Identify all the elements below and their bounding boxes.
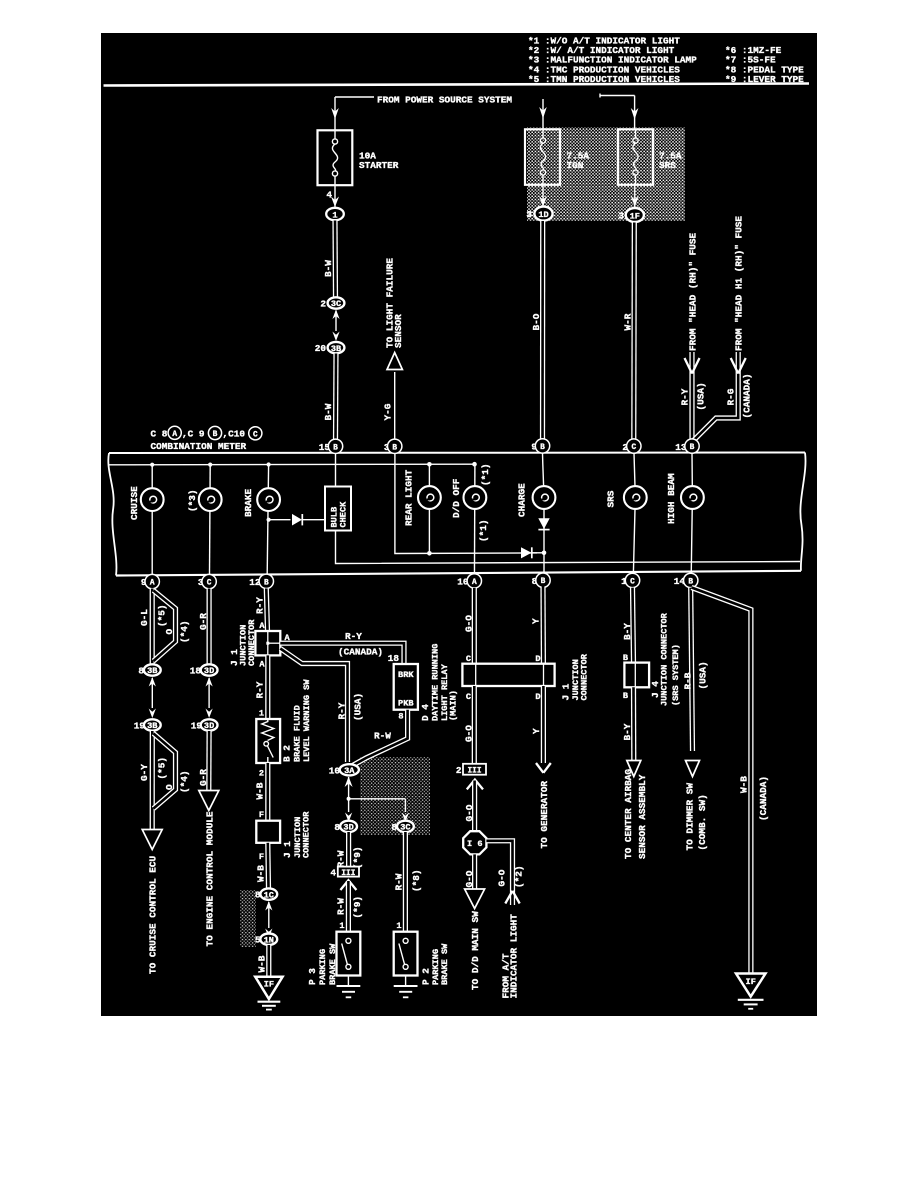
svg-text:(SRS SYSTEM): (SRS SYSTEM) [671,644,681,706]
connector 18(3D) [190,664,218,676]
svg-text:G-O: G-O [497,869,508,886]
svg-text:R-Y: R-Y [255,681,266,698]
wire G-O pin 10A to J1 connector [472,588,477,664]
svg-text:PKB: PKB [398,698,413,708]
meter internal supply bus [109,463,475,466]
svg-text:(*5): (*5) [156,604,167,627]
meter pin 3B [384,439,402,453]
wire R-G (CANADA) from HEAD H1 RH fuse to pin 13B [694,352,739,441]
diode below charge bulb [538,518,549,529]
svg-text:TO GENERATOR: TO GENERATOR [539,781,550,849]
label P 2 PARKING BRAKE SW [420,943,450,985]
svg-text:R-Y: R-Y [255,597,266,614]
wire Y J1 to generator [541,686,546,763]
connector I 6 octagon [463,831,486,854]
wire IGN fuse to connector 1D [539,185,547,208]
svg-text:2: 2 [259,769,264,779]
svg-text:INDICATOR LIGHT: INDICATOR LIGHT [509,914,520,999]
brake to bulb-check branch wire [267,518,326,522]
svg-text:G-O: G-O [464,870,475,887]
svg-text:G-L: G-L [139,609,150,626]
svg-text:G-O: G-O [464,615,475,632]
wire B-W connector 1 to 2(3C) [332,221,338,298]
svg-text:(MAIN): (MAIN) [449,690,459,721]
svg-text:D: D [535,654,540,664]
svg-text:B: B [540,444,545,452]
svg-text:D: D [535,692,540,702]
arrow to center airbag sensor assembly [627,761,641,777]
mating arrows 1C/1N [265,901,272,938]
bulb CRUISE [141,488,164,511]
cruise lamp column wire [151,465,153,589]
diode at charge column [521,547,544,558]
label J 1 JUNCTION CONNECTOR (first) [229,619,257,666]
svg-text:Y-G: Y-G [382,403,393,420]
label B 2 BRAKE FLUID LEVEL WARNING SW [282,679,313,762]
svg-text:W-B: W-B [255,782,266,799]
arrow into 8(3C) [402,813,409,823]
svg-text:B-Y: B-Y [622,623,633,640]
arrow to dimmer switch [686,761,700,777]
halftone patch near connector 3A [360,757,430,835]
junction connector J1 box (second) [256,821,280,843]
svg-text:O: O [164,629,175,635]
connector 4 III [330,867,359,879]
halftone patch left of connector 1C [240,890,256,947]
svg-text:TO CRUISE CONTROL ECU: TO CRUISE CONTROL ECU [148,855,159,974]
svg-text:CONNECTOR: CONNECTOR [301,811,311,858]
connector 8(1C) [255,888,277,900]
svg-text:STARTER: STARTER [359,160,399,171]
svg-text:(CANADA): (CANADA) [741,373,752,418]
svg-text:3: 3 [526,209,532,220]
svg-text:A: A [259,660,265,670]
bulb D/D OFF [464,486,487,509]
svg-text:R-B: R-B [682,672,693,689]
svg-text:(CANADA): (CANADA) [758,776,769,821]
wire G-O I6 down to O/D main switch [472,854,477,893]
svg-text:1N: 1N [264,935,274,945]
wire label R-W (*8) [394,869,423,892]
svg-text:III: III [341,870,355,878]
wire Y-G from pin 3B up [394,372,396,440]
svg-text:D 4: D 4 [420,704,431,721]
bulb check output wire along band bottom [336,531,801,564]
svg-text:(*1): (*1) [478,519,489,542]
wire label R-W (*9) lower [335,896,362,919]
svg-text:R-W: R-W [336,850,347,867]
svg-text:TO DIMMER SW: TO DIMMER SW [685,783,696,851]
mating arrows 3C/3B [332,310,339,342]
svg-text:REAR LIGHT: REAR LIGHT [403,469,414,526]
svg-text:C: C [466,654,471,664]
arrowhead to generator [536,763,551,773]
wire B-Y pin 1C to J4 [633,588,634,663]
svg-text:3C: 3C [331,299,341,309]
wire G-L from pin 9A to 8(3B) [150,589,155,666]
arrow to light failure sensor [387,353,402,370]
meter band bottom border [116,571,801,576]
svg-text:1: 1 [332,210,337,220]
svg-text:3C: 3C [400,823,410,833]
wire from power source to IGN fuse [539,99,547,130]
svg-text:A: A [172,431,177,439]
svg-text:3B: 3B [147,666,157,676]
wire fuse to connector 1 [331,185,339,208]
meter pin 14B [674,573,698,587]
connector 5(1N) [255,934,277,946]
svg-text:B-W: B-W [323,260,334,277]
arrowhead on R-Y head fuse wire [685,358,700,374]
connector 2(3C) [320,297,344,309]
svg-text:B: B [213,431,218,439]
svg-text:C: C [631,444,636,452]
label J 1 JUNCTION CONNECTOR (second) [282,811,311,858]
svg-text:R-G: R-G [725,388,736,405]
wire label G-O (*2) [497,865,525,888]
wire G-O (*2) from A/T indicator light to I6 [486,841,512,905]
label TO LIGHT FAILURE SENSOR [385,258,404,348]
fuse 7.5A SRS [618,129,682,185]
rear light column wire [428,464,430,553]
bulb BRAKE [257,488,280,511]
svg-text:FROM "HEAD H1 (RH)" FUSE: FROM "HEAD H1 (RH)" FUSE [734,216,745,351]
fuse 7.5A IGN [525,129,589,185]
fuse 10A STARTER [318,130,399,185]
svg-text:B-Y: B-Y [622,723,633,740]
svg-text:IF: IF [746,977,756,987]
svg-text:F: F [259,810,264,820]
svg-text:C: C [253,431,258,439]
svg-text:(USA): (USA) [695,382,706,410]
ground point IF (right) [736,974,766,1009]
svg-text:O: O [164,784,175,790]
svg-text:C: C [466,692,471,702]
svg-text:(*9): (*9) [352,846,363,869]
svg-text:(*9): (*9) [352,896,363,919]
meter pin 2C [622,439,641,453]
svg-text:B: B [541,578,546,586]
svg-text:SRS: SRS [659,160,676,171]
svg-text:(*1): (*1) [480,463,491,486]
meter pin 9A [141,574,160,588]
svg-text:LEVEL WARNING SW: LEVEL WARNING SW [302,679,312,762]
halftone patch behind IGN/SRS fuses [527,128,685,222]
switch P3 parking brake [337,932,361,976]
mating chevron below 2 III [467,780,483,790]
svg-text:3D: 3D [204,666,214,676]
charge column wire [543,453,545,589]
bulb HIGH BEAM [681,486,704,509]
svg-text:PARKING: PARKING [318,949,328,985]
svg-text:2: 2 [456,765,462,776]
connector 19(3D) [191,719,218,731]
svg-text:CHARGE: CHARGE [517,483,528,517]
arrow to engine control module [199,791,219,811]
connector 3(1F) [618,208,644,222]
svg-text:(*4): (*4) [179,620,190,643]
svg-text:(*4): (*4) [179,770,190,793]
wire B-Y J4 to center airbag sensor [631,687,636,761]
svg-text:FROM POWER SOURCE SYSTEM: FROM POWER SOURCE SYSTEM [377,94,512,105]
svg-text:C 8: C 8 [151,428,168,439]
label J 4 JUNCTION CONNECTOR (SRS SYSTEM) [650,612,681,706]
combination meter connector codes C8A C9B C10C [151,426,262,440]
svg-text:III: III [467,768,481,776]
svg-text:COMBINATION METER: COMBINATION METER [151,441,247,452]
svg-text:IF: IF [264,980,274,990]
meter pin 10A [457,574,481,588]
mating chevron below III [340,880,356,890]
svg-text:(COMB. SW): (COMB. SW) [697,794,708,850]
BULB CHECK box [325,487,351,531]
wire W-B (CANADA) pin 14B to ground IF right [692,588,751,974]
svg-text:TO D/D MAIN SW: TO D/D MAIN SW [470,911,481,990]
svg-text:G-O: G-O [464,725,475,742]
svg-text:B: B [690,444,695,452]
svg-text:W-R: W-R [622,313,633,330]
svg-text:(*3): (*3) [187,489,198,512]
svg-text:BRAKE SW: BRAKE SW [440,943,450,985]
svg-text:(USA): (USA) [352,693,363,721]
svg-text:(*2): (*2) [513,865,524,888]
connector 8(3C) [391,821,413,833]
engine lamp column wire [208,465,211,589]
wire R-W from D4 pin 8 to 3A [353,710,408,766]
wire R-Y from pin 12B to J1 [266,589,267,632]
svg-text:Y: Y [530,618,541,624]
meter pin 9B [531,439,549,453]
svg-text:G-O: G-O [464,804,475,821]
connector 19(3B) [134,719,161,731]
meter pin 12B [249,574,273,588]
svg-text:C: C [207,580,212,588]
svg-text:3D: 3D [204,721,214,731]
svg-text:B-W: B-W [323,403,334,420]
wire G-O J1 to connector 2 III [472,686,477,764]
svg-text:BRK: BRK [398,670,414,680]
svg-text:F: F [259,852,264,862]
svg-text:R-W: R-W [374,731,391,742]
svg-text:J 1: J 1 [282,841,293,858]
svg-text:C: C [630,578,635,586]
svg-text:(CANADA): (CANADA) [338,647,383,658]
junction dots on sub-circuit [427,551,546,556]
wire B-W 3B to meter pin 15B [333,354,339,441]
svg-text:TO ENGINE CONTROL MODULE: TO ENGINE CONTROL MODULE [204,811,215,946]
mating arrows 3B/3B [149,677,156,718]
label FROM A/T INDICATOR LIGHT [500,914,519,999]
wire SRS fuse to connector 1F [631,185,639,209]
wire G-O III to I6 [472,781,477,832]
ground point IF (left) [255,977,282,1010]
svg-text:R-Y: R-Y [337,702,348,719]
meter band left torn edge [108,453,116,576]
svg-text:BRAKE FLUID: BRAKE FLUID [293,705,303,762]
wire B-O 1D to meter pin 9B [540,221,545,440]
svg-text:BRAKE SW: BRAKE SW [328,943,338,985]
relay D4 box BRK/PKB [394,664,418,710]
svg-text:4: 4 [330,868,336,879]
diode D at brake branch [292,514,302,526]
svg-text:G-Y: G-Y [139,764,150,781]
wire R-W 3D to connector III [346,832,351,867]
branch loop wire (*4)/(*5) upper [154,591,176,662]
ground below P2 [394,976,418,998]
svg-text:IGN: IGN [567,160,584,171]
svg-text:R-W: R-W [335,898,346,915]
svg-text:B-O: B-O [531,313,542,330]
wire W-B J1 to 8(1C) [265,843,271,889]
svg-text:(USA): (USA) [698,661,709,689]
svg-text:R-W: R-W [394,873,405,890]
svg-text:G-R: G-R [198,769,209,786]
svg-text:1: 1 [259,709,264,719]
rear light / OD sub-circuit feed from pin 3B [395,453,537,554]
svg-text:A: A [472,579,477,587]
svg-text:CRUISE: CRUISE [129,486,140,520]
svg-text:SENSOR ASSEMBLY: SENSOR ASSEMBLY [637,774,648,859]
bulb SRS [624,486,647,509]
wire G-R from 19(3D) down [206,731,212,793]
svg-text:G-R: G-R [198,613,209,630]
wire W-B B2 to J1 second [265,763,270,821]
label TO DIMMER SW (COMB. SW) [685,783,709,851]
svg-text:B: B [333,444,338,452]
brake lamp column wire [267,465,269,590]
label J 1 JUNCTION CONNECTOR (long) [560,653,589,700]
arrowhead from A/T indicator [505,891,519,904]
switch P2 parking brake [394,932,418,976]
svg-text:CHECK: CHECK [338,501,348,528]
meter band top border [109,452,805,455]
svg-text:Y: Y [531,728,542,734]
svg-text:18: 18 [388,653,400,664]
svg-text:R-Y: R-Y [679,388,690,405]
wire Y pin 8B to J1 connector [540,587,546,664]
arrow into 8(3D) [345,813,352,823]
wire W-B 1N to ground IF [266,945,271,977]
svg-text:HIGH BEAM: HIGH BEAM [666,473,677,524]
connector 1 [326,208,344,221]
meter pin 15B [319,439,343,453]
svg-text:1C: 1C [264,890,274,900]
svg-text:CONNECTOR: CONNECTOR [579,653,589,700]
high beam column wire [691,453,692,589]
svg-text:3B: 3B [147,721,157,731]
svg-text:3D: 3D [343,823,353,833]
meter pin 3C [198,574,216,588]
svg-text:1: 1 [339,921,344,931]
wire R-B (USA) pin 14B to dimmer switch [691,588,693,751]
svg-text:FROM "HEAD (RH)" FUSE: FROM "HEAD (RH)" FUSE [687,232,698,351]
arrowhead on R-G head fuse wire [731,358,746,374]
svg-text:20: 20 [315,343,327,354]
wire R-Y (USA) from HEAD RH fuse to pin 13B [689,352,694,440]
branch loop wire (*4)/(*5) lower [154,734,176,809]
svg-text:(*5): (*5) [156,757,167,780]
connector 8(3D) [334,821,357,833]
junction connector J4 box [624,663,649,688]
meter band right torn edge [800,453,805,571]
svg-text:B 2: B 2 [282,745,293,762]
connector 8(3B) [138,664,160,676]
power source separator line [104,84,810,86]
svg-text:BRAKE: BRAKE [243,488,254,517]
wire G-Y from 19(3B) down [150,731,155,832]
svg-text:1: 1 [396,921,401,931]
meter pin 8B [532,573,551,587]
svg-text:J 1: J 1 [560,683,571,700]
junction dots on bus [150,462,477,467]
svg-text:3A: 3A [344,766,355,776]
wire R-W 3C to P2 [403,832,408,932]
svg-text:W-B: W-B [257,955,268,972]
wire R-Y J1 to brake fluid switch [265,655,270,719]
svg-text:P 2: P 2 [420,968,431,985]
svg-text:P 3: P 3 [307,968,318,985]
svg-text:CONNECTOR: CONNECTOR [247,619,257,666]
svg-text:1D: 1D [538,210,548,220]
svg-text:I 6: I 6 [467,839,482,849]
wire R-Y (USA) J1 to 3A [280,649,347,763]
junction connector J1 box [255,631,280,655]
ground below P3 [337,976,361,998]
label D 4 DAYTIME RUNNING LIGHT RELAY (MAIN) [420,644,459,721]
diagram background panel [101,33,817,1016]
svg-text:2: 2 [320,299,326,310]
svg-text:A: A [150,580,155,588]
svg-text:W-B: W-B [739,776,750,793]
srs column wire [633,453,635,589]
svg-text:R-Y: R-Y [345,631,362,642]
svg-text:SENSOR: SENSOR [393,314,404,348]
svg-text:,C 9: ,C 9 [182,428,205,439]
wire R-W III to P3 [346,881,351,932]
connector 20(3B) [315,342,345,354]
svg-text:4: 4 [326,190,332,201]
svg-text:A: A [259,621,265,631]
wire W-R 1F to meter pin 2C [631,223,637,440]
svg-text:(*8): (*8) [411,869,422,892]
svg-text:*9 :LEVER TYPE: *9 :LEVER TYPE [725,74,804,85]
svg-text:B: B [623,691,628,701]
wire label R-W (*9) upper [336,846,363,869]
svg-text:TO CENTER AIRBAG: TO CENTER AIRBAG [623,769,634,859]
svg-text:B: B [392,444,397,452]
bulb (*3) [199,488,222,511]
svg-text:B: B [264,579,269,587]
svg-text:,C10: ,C10 [223,428,246,439]
bulb check unit column from pin 15B [335,446,337,487]
connector 3(1D) [526,207,552,221]
svg-text:3: 3 [618,210,624,221]
svg-text:*5 :TMN PRODUCTION VEHICLES: *5 :TMN PRODUCTION VEHICLES [528,74,680,85]
svg-text:SRS: SRS [606,490,617,507]
o/d off column wire [473,464,476,589]
connector 2 III [456,764,486,776]
mating arrows 3D/3D [206,677,213,718]
arrow to O/D main switch [465,889,485,909]
wire R-Y (CANADA) J1 to D4 relay [280,643,404,665]
wire from power source to SRS fuse [600,94,638,131]
junction connector J1 long box [462,664,554,686]
wire split junction below 3A [347,792,406,812]
svg-text:JUNCTION CONNECTOR: JUNCTION CONNECTOR [659,612,669,706]
label P 3 PARKING BRAKE SW [307,943,338,985]
bulb REAR LIGHT [418,486,441,509]
svg-text:8: 8 [398,712,403,722]
